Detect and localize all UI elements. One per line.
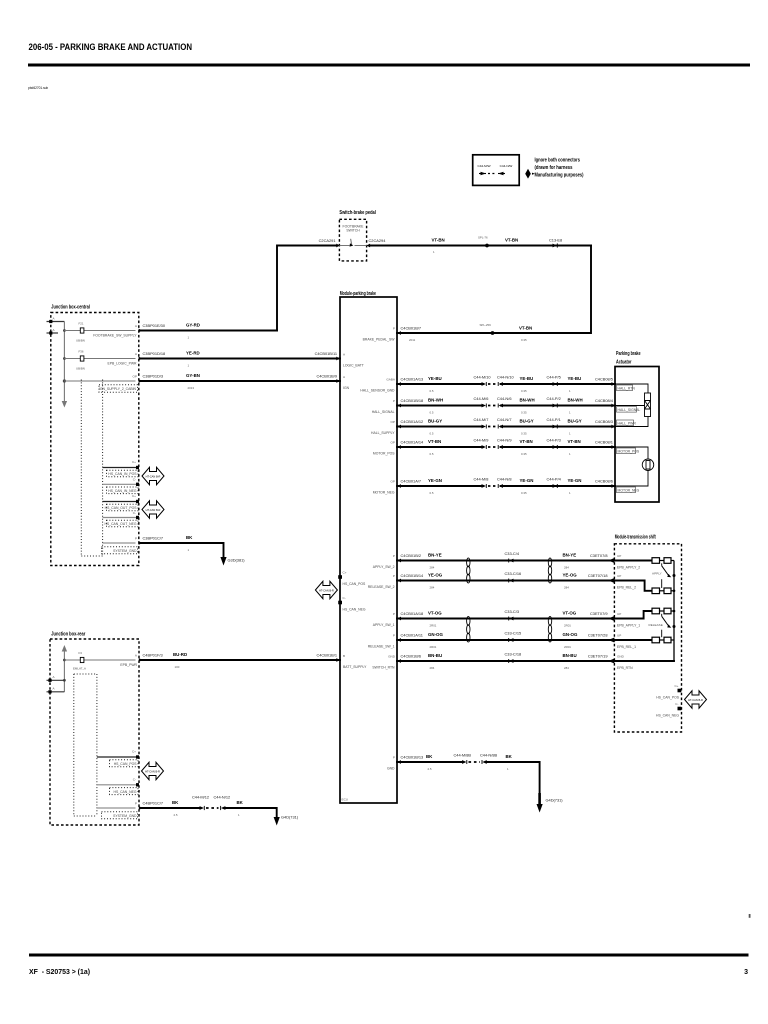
svg-text:VT-OG: VT-OG <box>563 611 577 616</box>
wire YE-GN motor neg row <box>397 478 615 495</box>
connector pair C44-M/8 C44-N/8 <box>474 477 512 489</box>
jbr feed pin A2 <box>47 687 65 694</box>
svg-text:GND: GND <box>388 655 396 659</box>
svg-text:HS_CAN_POS: HS_CAN_POS <box>114 762 138 766</box>
svg-text:Junction box-rear: Junction box-rear <box>51 632 86 638</box>
svg-text:C44-N/W: C44-N/W <box>500 164 513 168</box>
svg-text:EPB_REL_2: EPB_REL_2 <box>617 586 636 590</box>
jbc feed pin A2 <box>47 328 59 335</box>
svg-text:C33-C/16: C33-C/16 <box>505 571 522 576</box>
shift internal return bus <box>614 561 675 662</box>
svg-text:C+: C+ <box>674 684 678 688</box>
fuse F3 <box>64 651 135 671</box>
svg-text:C-: C- <box>133 478 136 482</box>
svg-text:Ignore both connectors: Ignore both connectors <box>535 158 581 164</box>
svg-text:UP: UP <box>617 574 621 578</box>
svg-text:0.35: 0.35 <box>521 452 527 456</box>
svg-text:C4CB08/4: C4CB08/4 <box>595 398 614 403</box>
svg-text:HT-CAN B-R: HT-CAN B-R <box>688 698 703 702</box>
twisted pair marks rows 1-2 <box>467 558 552 583</box>
harness dashed link module gnd <box>469 761 481 763</box>
svg-text:F21: F21 <box>79 322 84 326</box>
svg-text:BATT_SUPPLY: BATT_SUPPLY <box>343 665 367 669</box>
module pin SWITCH_RTN <box>372 655 401 670</box>
connector C44-P/2 <box>547 396 561 408</box>
svg-text:IGN_SUPPLY_2_CABIN: IGN_SUPPLY_2_CABIN <box>99 387 137 391</box>
svg-text:C44-P/1: C44-P/1 <box>547 417 561 422</box>
connector C44-P/4 <box>547 477 562 489</box>
wire VT-BN motor pos row <box>397 439 615 456</box>
svg-text:Junction box-central: Junction box-central <box>51 305 90 311</box>
connector C33-C/4 <box>505 551 520 563</box>
module pin APPLY_SW_2 <box>373 554 401 569</box>
svg-text:P: P <box>393 399 395 403</box>
svg-text:P: P <box>393 574 395 578</box>
svg-text:EPB_LOGIC_PWR: EPB_LOGIC_PWR <box>107 362 137 366</box>
jbr pin EPB_PWR <box>120 654 142 668</box>
svg-text:FOOTBRAKE_SW_SUPPLY: FOOTBRAKE_SW_SUPPLY <box>93 334 137 338</box>
svg-text:C-: C- <box>343 596 346 600</box>
legend connector C44-N/W <box>498 164 512 175</box>
svg-text:Module-transmission shift: Module-transmission shift <box>615 535 656 541</box>
splice SPL-259 <box>480 323 495 335</box>
svg-text:SWITCH: SWITCH <box>346 229 360 233</box>
connector C33-C/18 <box>505 652 522 664</box>
svg-text:BK: BK <box>426 754 433 759</box>
label VT-BN 0.35 <box>432 238 445 255</box>
svg-text:0.35: 0.35 <box>521 389 527 393</box>
module pin RELEASE_SW_1 <box>368 634 401 649</box>
svg-text:EPB_RTN: EPB_RTN <box>617 666 633 670</box>
svg-text:SPL-259: SPL-259 <box>480 323 492 327</box>
svg-text:0.5: 0.5 <box>430 411 434 415</box>
svg-text:HS_CAN_IN_POS: HS_CAN_IN_POS <box>108 472 137 476</box>
svg-text:C44-N/6: C44-N/6 <box>497 396 512 401</box>
svg-text:RELEASE_SW_1: RELEASE_SW_1 <box>368 645 395 649</box>
actuator pin HALL_SIGNAL <box>617 407 641 413</box>
shift pin EPB_REL_2 <box>608 574 636 590</box>
module pin IGN <box>336 375 349 390</box>
svg-text:HALL_RTN: HALL_RTN <box>618 387 636 391</box>
wire YE-RD C3BP01D/18 to module LOGIC_BATT <box>141 351 340 368</box>
svg-text:G4D(731): G4D(731) <box>281 815 299 820</box>
svg-text:C44-M/10: C44-M/10 <box>474 375 492 380</box>
svg-text:YE-GN: YE-GN <box>568 478 582 483</box>
legend connector C44-M/W <box>477 164 490 175</box>
svg-text:P: P <box>393 756 395 760</box>
svg-text:P: P <box>393 554 395 558</box>
svg-text:P: P <box>135 537 137 541</box>
svg-text:VT-BN: VT-BN <box>428 439 441 444</box>
connector pair C44-M/9 C44-N/9 <box>474 438 512 450</box>
wire VT-OG apply sw 1 <box>397 611 614 628</box>
svg-text:XF - S20753 > (1a): XF - S20753 > (1a) <box>29 969 90 976</box>
svg-text:APPLY_SW_2: APPLY_SW_2 <box>373 565 395 569</box>
svg-text:C33-C/15: C33-C/15 <box>505 631 522 636</box>
svg-text:HS_CAN_POS: HS_CAN_POS <box>343 582 367 586</box>
svg-text:Actuator: Actuator <box>616 360 632 366</box>
module pin HS_CAN_NEG <box>338 596 366 612</box>
svg-text:C44-M/7: C44-M/7 <box>474 417 489 422</box>
svg-text:MOTOR_NEG: MOTOR_NEG <box>618 489 640 493</box>
svg-text:C3BP01D/3: C3BP01D/3 <box>143 374 164 379</box>
svg-text:284: 284 <box>564 566 569 570</box>
jbc pin IGN_SUPPLY_2_CABIN <box>63 375 143 393</box>
svg-text:G3D(381): G3D(381) <box>228 558 246 563</box>
svg-text:C44-P/3: C44-P/3 <box>547 438 561 443</box>
shift pin EPB_APPLY_1 <box>608 612 640 628</box>
fuse F36 <box>64 350 135 371</box>
svg-text:C-: C- <box>133 778 136 782</box>
svg-text:HS_CAN_NEG: HS_CAN_NEG <box>114 790 137 794</box>
svg-text:B: B <box>343 654 345 658</box>
svg-text:C4CB01B/13: C4CB01B/13 <box>401 755 424 760</box>
svg-text:MOTOR_NEG: MOTOR_NEG <box>373 491 395 495</box>
harness dashed link rear gnd <box>206 807 219 809</box>
wire BU-RD C4BP01F/3 to module BATT_SUPPLY <box>141 652 340 669</box>
actuator pin MOTOR_POS <box>617 448 640 454</box>
svg-text:C4BP01C/7: C4BP01C/7 <box>143 801 164 806</box>
svg-text:0.5: 0.5 <box>430 452 434 456</box>
svg-text:BN-YE: BN-YE <box>563 553 577 558</box>
svg-text:Switch-brake pedal: Switch-brake pedal <box>339 210 376 216</box>
module pin BATT_SUPPLY <box>336 654 367 669</box>
parking brake actuator title <box>616 351 641 366</box>
wire YE-OG release sw 2 <box>397 573 614 590</box>
svg-text:HALL_SIGNAL: HALL_SIGNAL <box>372 410 395 414</box>
svg-text:Parking brake: Parking brake <box>616 351 641 357</box>
jbr pin HS_CAN_NEG <box>97 778 139 795</box>
svg-text:GY-BN: GY-BN <box>186 373 200 378</box>
shift internal row release 1 contacts <box>614 637 674 643</box>
svg-text:C44-N/7: C44-N/7 <box>497 417 512 422</box>
svg-text:YE-OG: YE-OG <box>428 573 443 578</box>
footer rule <box>29 954 749 957</box>
svg-text:YE-OG: YE-OG <box>563 573 578 578</box>
svg-text:YE-BU: YE-BU <box>428 376 442 381</box>
wire BK to ground G4D rear <box>225 800 277 817</box>
wire GY-RD riser to switch <box>277 246 337 331</box>
svg-text:3: 3 <box>744 969 748 976</box>
legend box <box>473 155 520 186</box>
svg-text:0.35: 0.35 <box>521 491 527 495</box>
svg-text:C4CB08/5: C4CB08/5 <box>595 377 613 382</box>
svg-text:SYSTEM_GND: SYSTEM_GND <box>113 549 137 553</box>
twisted pair marks rows 3-4 <box>467 616 552 642</box>
svg-text:284: 284 <box>430 586 435 590</box>
svg-text:C4CB08/6: C4CB08/6 <box>595 479 613 484</box>
svg-text:F3: F3 <box>79 651 83 655</box>
svg-text:C-: C- <box>133 511 136 515</box>
svg-text:2R01: 2R01 <box>564 624 571 628</box>
svg-text:2013: 2013 <box>188 386 195 390</box>
svg-text:C44-N/8B: C44-N/8B <box>480 753 497 758</box>
svg-text:HS_CAN_POS: HS_CAN_POS <box>656 696 680 700</box>
svg-text:C4BP01F/3: C4BP01F/3 <box>143 653 163 658</box>
svg-text:C44-M/8: C44-M/8 <box>474 477 489 482</box>
svg-text:C4CB01A/7: C4CB01A/7 <box>401 479 422 484</box>
module pin HALL_SUPPLY <box>371 420 401 435</box>
svg-text:C33-C/18: C33-C/18 <box>505 652 522 657</box>
svg-text:C44-P/5: C44-P/5 <box>547 375 561 380</box>
svg-text:BU-RD: BU-RD <box>173 652 187 657</box>
svg-text:BK: BK <box>186 535 193 540</box>
svg-text:BRAKE_PEDAL_SW: BRAKE_PEDAL_SW <box>363 338 396 342</box>
svg-text:HS_CAN_IN_NEG: HS_CAN_IN_NEG <box>108 489 137 493</box>
jbr feed pin A1 <box>47 675 65 682</box>
connector C44-N/12 <box>214 795 231 811</box>
wire YE-BU hall sensor gnd row <box>397 376 615 393</box>
connector C4CB08/5 <box>595 377 615 386</box>
svg-text:C44-M/9: C44-M/9 <box>474 438 489 443</box>
svg-text:HT-CAN B-R: HT-CAN B-R <box>146 474 161 478</box>
svg-text:C44-N/8: C44-N/8 <box>497 477 512 482</box>
wire BN-YE apply sw 2 <box>397 553 614 570</box>
svg-text:C4CB01B/18: C4CB01B/18 <box>401 398 424 403</box>
connector C33-C/3 <box>505 609 520 621</box>
svg-text:OP: OP <box>391 441 395 445</box>
actuator pin MOTOR_NEG <box>617 487 640 493</box>
svg-text:C3BP01C/7: C3BP01C/7 <box>143 536 164 541</box>
svg-text:MOTOR_POS: MOTOR_POS <box>618 450 640 454</box>
svg-text:YE-GN: YE-GN <box>428 478 442 483</box>
jbc pin SYSTEM_GND <box>102 537 143 554</box>
network symbol HS CAN shift <box>685 691 707 709</box>
svg-text:P: P <box>393 634 395 638</box>
module pin APPLY_SW_1 <box>373 612 401 627</box>
svg-text:C3BP01D/18: C3BP01D/18 <box>143 351 166 356</box>
svg-text:VT-BN: VT-BN <box>568 439 581 444</box>
actuator pin HALL_PWR <box>617 420 637 426</box>
actuator pin HALL_RTN <box>617 385 636 391</box>
svg-text:C+: C+ <box>132 460 136 464</box>
svg-text:C3ET07/19: C3ET07/19 <box>588 654 608 659</box>
svg-text:100: 100 <box>175 665 180 669</box>
svg-text:BK: BK <box>172 800 179 805</box>
svg-text:SWITCH_RTN: SWITCH_RTN <box>372 666 395 670</box>
svg-text:C3ET07/8: C3ET07/8 <box>590 553 608 558</box>
jbc pin FOOTBRAKE_SW_SUPPLY <box>93 324 142 338</box>
connector C2CA294 <box>367 238 387 247</box>
svg-text:206-05 - PARKING BRAKE AND ACT: 206-05 - PARKING BRAKE AND ACTUATION <box>29 41 193 52</box>
svg-text:pbd62701.sub: pbd62701.sub <box>28 86 48 90</box>
shift pin EPB_REL_1 <box>608 634 636 650</box>
svg-text:GN-OG: GN-OG <box>428 632 443 637</box>
svg-text:C-: C- <box>675 702 678 706</box>
svg-text:SYSTEM_GND: SYSTEM_GND <box>113 814 137 818</box>
svg-text:0.35: 0.35 <box>521 411 527 415</box>
svg-text:C4CB01B/6: C4CB01B/6 <box>401 654 422 659</box>
fuse F21 <box>64 322 135 343</box>
svg-text:EPB_REL_1: EPB_REL_1 <box>617 645 636 649</box>
svg-text:C4CB01B/2: C4CB01B/2 <box>401 553 422 558</box>
svg-text:MOTOR_POS: MOTOR_POS <box>373 452 395 456</box>
wire VT-BN switch to corner <box>370 245 591 247</box>
switch APPLY <box>652 563 676 588</box>
svg-text:C44-M/W: C44-M/W <box>477 164 490 168</box>
svg-text:YE-BU: YE-BU <box>568 376 582 381</box>
actuator motor M1 <box>615 447 654 486</box>
shift pin EPB_RTN <box>608 655 633 671</box>
junction box-rear dashed enclosure <box>50 639 139 825</box>
svg-text:GY-RD: GY-RD <box>186 323 200 328</box>
svg-text:0.35: 0.35 <box>521 432 527 436</box>
shift internal row apply 2 contacts <box>614 558 674 564</box>
module pin HALL_SENSOR_GND <box>360 378 401 393</box>
jbr pin HS_CAN_POS <box>97 750 139 767</box>
switch RELEASE <box>649 614 676 637</box>
ground G4D(731) rear <box>274 815 299 826</box>
svg-text:0.5: 0.5 <box>430 432 434 436</box>
svg-text:2.5: 2.5 <box>428 767 432 771</box>
svg-text:2R01: 2R01 <box>430 624 437 628</box>
jbc pin HS_CAN_IN_NEG <box>103 478 139 494</box>
legend diamond marker <box>525 169 535 179</box>
svg-text:APPLY_SW_1: APPLY_SW_1 <box>373 623 395 627</box>
module pin RELEASE_SW_2 <box>368 574 401 589</box>
svg-text:GND: GND <box>617 655 625 659</box>
module pin MOTOR_NEG <box>373 480 401 495</box>
svg-text:HALL_SIGNAL: HALL_SIGNAL <box>618 408 641 412</box>
wire BK module gnd <box>397 754 464 771</box>
wire VT-BN right leg down <box>397 246 591 334</box>
svg-text:P: P <box>135 802 137 806</box>
svg-text:P: P <box>393 612 395 616</box>
svg-text:C3ET07/18: C3ET07/18 <box>588 573 608 578</box>
svg-text:OP: OP <box>391 420 395 424</box>
module-transmission shift dashed enclosure <box>614 544 681 732</box>
svg-text:UP: UP <box>617 554 621 558</box>
svg-text:C+: C+ <box>132 494 136 498</box>
svg-text:HS_CAN_NEG: HS_CAN_NEG <box>656 714 679 718</box>
network symbol HS CAN module <box>315 581 337 599</box>
pin C4CB01B/7 BRAKE_PEDAL_SW <box>363 326 421 343</box>
module pin LOGIC_BATT <box>336 353 364 368</box>
module-parking brake enclosure U1 <box>340 297 397 803</box>
module pin HALL_SIGNAL <box>372 399 401 414</box>
svg-text:IGN: IGN <box>343 386 350 390</box>
wire GY-BN C3BP01D/3 to module IGN <box>141 373 340 390</box>
legend note text <box>535 158 584 179</box>
svg-text:YE-GN: YE-GN <box>520 478 534 483</box>
connector C44-P/5 <box>547 375 561 387</box>
shift internal row release 2 contacts <box>614 581 674 594</box>
svg-text:C+: C+ <box>132 750 136 754</box>
svg-text:GN-OG: GN-OG <box>563 632 578 637</box>
jbc pin HS_CAN_OUT_NEG <box>103 511 139 527</box>
svg-text:EPB_APPLY_1: EPB_APPLY_1 <box>617 624 640 628</box>
svg-text:EPB_APPLY_2: EPB_APPLY_2 <box>617 566 640 570</box>
svg-text:GND: GND <box>387 767 395 771</box>
svg-text:284: 284 <box>564 586 569 590</box>
svg-text:UP: UP <box>617 634 621 638</box>
svg-text:BU-GY: BU-GY <box>520 419 534 424</box>
connector C44-P/1 <box>547 417 561 429</box>
svg-text:BN-WH: BN-WH <box>428 398 443 403</box>
connector pair C44-M/7 C44-N/7 <box>474 417 512 429</box>
svg-text:C44-P/2: C44-P/2 <box>547 396 561 401</box>
svg-text:SPL-76: SPL-76 <box>478 236 488 240</box>
svg-text:(drawn for harness: (drawn for harness <box>535 165 573 171</box>
connector C33-C/16 <box>505 571 522 583</box>
svg-text:HALL_SENSOR_GND: HALL_SENSOR_GND <box>360 389 395 393</box>
svg-text:C4CB01B/14: C4CB01B/14 <box>401 573 425 578</box>
jbr pin SYSTEM_GND <box>97 802 143 819</box>
network symbol HS CAN rear <box>142 762 164 780</box>
svg-text:2011: 2011 <box>409 338 416 342</box>
wire BN-WH hall signal row <box>397 398 615 415</box>
svg-text:C44-N/9: C44-N/9 <box>497 438 512 443</box>
svg-text:C4CB08/1: C4CB08/1 <box>595 440 613 445</box>
svg-text:284: 284 <box>564 666 569 670</box>
svg-text:C4CB01B/1: C4CB01B/1 <box>316 653 337 658</box>
svg-text:VT-BN: VT-BN <box>519 326 532 331</box>
svg-text:BN-WH: BN-WH <box>520 398 535 403</box>
connector C4CB08/1 <box>595 440 615 449</box>
svg-text:Manufacturing purposes): Manufacturing purposes) <box>535 173 584 179</box>
svg-text:Module-parking brake: Module-parking brake <box>340 291 376 297</box>
svg-text:HT-CAN B-R: HT-CAN B-R <box>146 508 161 512</box>
label VT-BN 0.35 lower <box>519 326 532 343</box>
wire BK to ground G4D module <box>487 754 540 804</box>
svg-text:C4CB01A/14: C4CB01A/14 <box>401 440 425 445</box>
svg-text:C3ET07/9: C3ET07/9 <box>590 611 608 616</box>
connector C4CB08/3 <box>595 419 615 428</box>
connector pair C44-M/6 C44-N/6 <box>474 396 512 408</box>
svg-text:BK: BK <box>506 754 513 759</box>
svg-text:BN-BU: BN-BU <box>563 653 577 658</box>
svg-text:C44-M/12: C44-M/12 <box>192 795 209 800</box>
svg-text:HS_CAN_NEG: HS_CAN_NEG <box>343 608 366 612</box>
wire BN-BU switch rtn <box>397 653 614 670</box>
svg-text:2.5: 2.5 <box>174 813 178 817</box>
svg-text:LOGIC_BATT: LOGIC_BATT <box>343 364 364 368</box>
svg-text:YE-BU: YE-BU <box>520 376 534 381</box>
network symbol HS CAN in <box>142 467 164 485</box>
wire BK to ground G3D <box>141 535 224 557</box>
svg-text:C3BP01E/30: C3BP01E/30 <box>143 323 166 328</box>
svg-text:HALL_SUPPLY: HALL_SUPPLY <box>371 431 395 435</box>
jbc feed pin A1 <box>47 317 65 324</box>
svg-text:2R01: 2R01 <box>430 645 437 649</box>
connector C44-N/8B <box>480 753 497 765</box>
svg-text:C4CB01A/18: C4CB01A/18 <box>401 611 424 616</box>
svg-text:C2CA291: C2CA291 <box>319 238 336 243</box>
shift pin EPB_APPLY_2 <box>608 554 640 570</box>
connector C4CB08/6 <box>595 479 615 488</box>
svg-text:C13-E8: C13-E8 <box>549 238 562 243</box>
ground G3D(381) <box>220 557 245 566</box>
svg-text:284: 284 <box>430 666 435 670</box>
wire GY-RD C3BP01E/30 <box>141 323 277 340</box>
module pin MOTOR_POS <box>373 441 401 456</box>
svg-text:UB/BN: UB/BN <box>76 367 85 371</box>
actuator hall sensor element <box>615 384 651 427</box>
svg-text:C+: C+ <box>343 571 347 575</box>
shift pin HS_CAN_POS <box>656 684 681 700</box>
svg-text:C2CA294: C2CA294 <box>369 238 387 243</box>
svg-text:BK: BK <box>237 800 244 805</box>
ground G4D(731) module <box>537 793 564 813</box>
svg-text:C4CB01B/11: C4CB01B/11 <box>315 351 337 356</box>
svg-text:C4CB01A/12: C4CB01A/12 <box>401 419 424 424</box>
connector C13-E8 <box>549 238 562 248</box>
jbc pin HS_CAN_IN_POS <box>103 460 139 477</box>
svg-text:OP: OP <box>133 375 137 379</box>
shift pin HS_CAN_NEG <box>656 702 681 718</box>
connector pair C44-M/10 C44-N/10 <box>474 375 515 387</box>
svg-text:2R01: 2R01 <box>564 645 571 649</box>
